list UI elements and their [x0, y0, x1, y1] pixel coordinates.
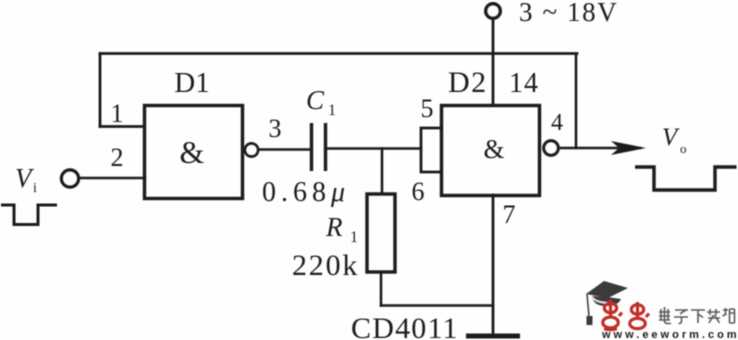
watermark logo graduation cap	[586, 281, 628, 325]
svg-text:R: R	[325, 212, 343, 242]
wire R1 bottom horizontal to pin7	[381, 304, 493, 307]
svg-text:i: i	[33, 181, 37, 196]
ground	[466, 334, 520, 339]
output waveform pulse	[635, 167, 737, 190]
svg-text:14: 14	[509, 68, 539, 99]
svg-text:D2: D2	[448, 66, 488, 99]
wire right feedback vertical	[575, 54, 578, 149]
svg-text:C: C	[306, 85, 325, 115]
wire top feedback line	[100, 52, 577, 55]
gate D2 output bubble	[544, 141, 558, 155]
wire pin 1 input to D1	[100, 125, 144, 128]
svg-text:7: 7	[503, 200, 516, 229]
wire pin 7 vertical to ground	[492, 195, 495, 336]
wire R1 top vertical	[381, 149, 384, 195]
power terminal circle	[486, 4, 500, 18]
output arrow	[611, 141, 646, 155]
svg-text:3 ~ 18V: 3 ~ 18V	[519, 0, 618, 27]
svg-text:&: &	[180, 134, 205, 170]
svg-text:6: 6	[412, 177, 425, 206]
gate D2 box	[442, 106, 540, 196]
capacitor C1 plates	[312, 123, 326, 171]
watermark text dianzixiazaizhan	[659, 307, 735, 324]
input terminal circle	[62, 170, 79, 187]
svg-text:CD4011: CD4011	[351, 312, 459, 340]
svg-text:www.eeworm.com: www.eeworm.com	[601, 329, 738, 340]
svg-text:1: 1	[328, 102, 336, 119]
svg-text:o: o	[680, 141, 687, 156]
wire input to D1 pin 2	[80, 177, 145, 180]
svg-text:220k: 220k	[292, 249, 359, 282]
watermark red characters	[603, 300, 649, 330]
svg-text:D1: D1	[174, 67, 209, 99]
wire R1 bottom vertical	[380, 272, 383, 306]
wire left feedback vertical	[99, 54, 102, 127]
svg-text:0.68μ: 0.68μ	[262, 177, 350, 208]
svg-text:5: 5	[421, 94, 434, 123]
gate D1 box	[145, 106, 243, 199]
svg-text:4: 4	[551, 110, 563, 136]
svg-text:1: 1	[350, 229, 358, 246]
svg-text:3: 3	[269, 114, 282, 143]
wire D2 output	[558, 147, 640, 150]
svg-text:V: V	[662, 124, 680, 151]
gate D1 output bubble	[245, 144, 258, 157]
wire C1 to D2 input	[327, 147, 421, 150]
wire power vertical pin 14	[492, 19, 495, 106]
svg-text:2: 2	[111, 143, 124, 172]
gate D2 input bracket pins 5,6	[421, 128, 441, 172]
svg-text:&: &	[483, 134, 504, 164]
input waveform pulse	[1, 205, 57, 225]
svg-text:1: 1	[111, 99, 124, 128]
resistor R1	[367, 194, 395, 272]
wire D1 output to C1	[258, 148, 310, 151]
svg-text:V: V	[15, 163, 35, 193]
